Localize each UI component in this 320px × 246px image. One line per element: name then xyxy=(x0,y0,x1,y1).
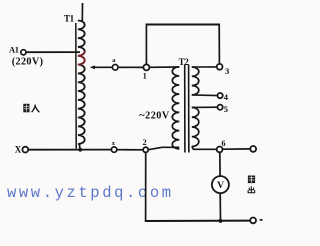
wire node6 down to voltmeter xyxy=(219,152,221,176)
wire node1 up xyxy=(145,25,147,64)
wire stub right of bottom terminal xyxy=(260,219,263,221)
svg-text:(220V): (220V) xyxy=(12,57,44,68)
junction dot bottom rail xyxy=(219,219,223,223)
wire voltmeter to bottom rail xyxy=(219,193,221,221)
T2 core line right xyxy=(188,65,190,153)
T1 core/axis line xyxy=(75,23,77,149)
wire x to node 2 xyxy=(117,149,143,151)
svg-text:4: 4 xyxy=(224,92,229,102)
wire T2 primary bottom to node 2 xyxy=(149,147,180,149)
terminal A1 circle xyxy=(21,50,26,55)
wire T2 secondary top stub to node 3 xyxy=(192,66,217,68)
terminal 3 circle xyxy=(217,64,223,70)
terminal 4 circle xyxy=(218,93,223,98)
junction dot T1 bottom xyxy=(78,148,82,152)
label 输入 (input) xyxy=(23,104,39,113)
output bottom terminal xyxy=(250,218,256,224)
terminal X circle xyxy=(22,147,28,153)
T2 secondary winding lower section xyxy=(192,107,199,146)
T1 winding red section xyxy=(78,52,85,65)
svg-text:T1: T1 xyxy=(64,13,75,23)
terminal a circle xyxy=(112,65,118,71)
wire down to node 3 xyxy=(218,25,220,64)
voltmeter V xyxy=(212,176,229,193)
wire node 5 stub xyxy=(192,106,218,108)
svg-text:~220V: ~220V xyxy=(139,111,170,122)
label 输出 (output) xyxy=(248,176,255,193)
T2 core line left xyxy=(184,65,186,153)
wire T1 top stem xyxy=(81,3,83,21)
terminal 5 circle xyxy=(218,105,223,110)
terminal 2 circle xyxy=(143,147,148,152)
wire secondary bottom to node 6 xyxy=(192,147,217,150)
svg-text:A1: A1 xyxy=(9,44,19,54)
terminal 1 circle xyxy=(143,64,149,70)
wire top rail xyxy=(146,24,220,26)
output top terminal xyxy=(250,146,256,152)
svg-text:5: 5 xyxy=(224,104,228,114)
wire node6 to output top xyxy=(223,148,251,150)
T1 wiper arrowhead xyxy=(90,65,95,69)
svg-text:www.yztpdq.com: www.yztpdq.com xyxy=(7,184,174,202)
svg-text:X: X xyxy=(15,144,22,154)
T2 primary winding xyxy=(172,67,179,149)
wire A1 to T1 tap xyxy=(26,51,80,53)
svg-text:1: 1 xyxy=(143,72,147,81)
svg-text:V: V xyxy=(217,181,224,191)
svg-text:T2: T2 xyxy=(179,57,190,67)
wire secondary tap to node 4 xyxy=(192,94,218,97)
autotransformer T1 winding xyxy=(78,21,85,144)
wire T1 winding bottom to junction xyxy=(78,144,81,150)
wire a to node 1 xyxy=(118,66,143,68)
svg-text:3: 3 xyxy=(225,66,229,76)
wire node1 to T2 primary xyxy=(150,66,180,68)
T2 secondary winding upper section xyxy=(192,67,199,95)
wire node 2 down xyxy=(145,153,147,222)
terminal 6 circle xyxy=(217,147,223,153)
svg-text:2: 2 xyxy=(143,138,147,147)
wire wiper to terminal a xyxy=(94,66,113,68)
terminal x circle xyxy=(111,147,116,152)
wire bottom rail xyxy=(145,220,250,222)
wire X to x xyxy=(28,149,111,151)
